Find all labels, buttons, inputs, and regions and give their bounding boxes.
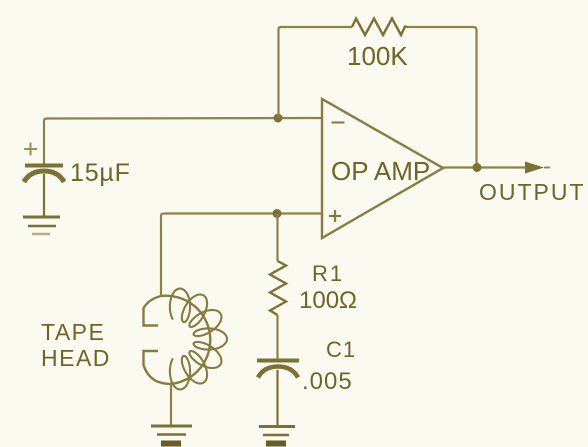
resistor 100K	[352, 19, 407, 36]
label C1	[326, 337, 356, 362]
ground (C1)	[259, 427, 295, 444]
label 15uF	[70, 159, 131, 187]
label .005	[302, 368, 353, 395]
label OP AMP	[331, 156, 430, 186]
capacitor 15uF plus marker	[24, 143, 37, 156]
wire: feedback top horizontal right of resistor	[407, 27, 477, 167]
junction: feedback to inverting input	[274, 114, 283, 123]
svg-text:100K: 100K	[347, 41, 408, 71]
svg-text:C1: C1	[326, 337, 356, 362]
label TAPE HEAD	[41, 319, 111, 371]
wire: non-inverting input line	[161, 214, 322, 297]
svg-text:R1: R1	[312, 261, 344, 286]
op-amp U1	[322, 99, 443, 238]
svg-text:OUTPUT: OUTPUT	[479, 179, 586, 205]
wire: 15uF cap to inverting input	[44, 118, 322, 165]
ground (15uF)	[23, 217, 60, 234]
svg-text:100Ω: 100Ω	[299, 287, 357, 314]
wire: feedback top horizontal left of resistor	[280, 26, 352, 28]
wire: non-inverting node to R1	[276, 214, 278, 262]
label 100K	[347, 41, 408, 71]
capacitor 15uF	[24, 166, 64, 217]
label R1	[312, 261, 344, 286]
inverting input marker -	[332, 121, 345, 123]
wire: R1 to C1	[276, 315, 278, 359]
svg-text:OP AMP: OP AMP	[331, 156, 430, 186]
tape head winding	[170, 289, 227, 390]
label 100ohm	[299, 287, 357, 314]
svg-text:15µF: 15µF	[70, 159, 131, 187]
tape head core	[144, 296, 211, 384]
wire: op-amp output	[443, 166, 527, 168]
svg-text:TAPE: TAPE	[41, 319, 105, 345]
wire: tape head to ground	[170, 384, 172, 425]
resistor R1	[270, 261, 286, 315]
label OUTPUT	[479, 179, 586, 205]
non-inverting input marker +	[329, 210, 341, 222]
capacitor C1	[257, 361, 299, 426]
svg-text:.005: .005	[302, 368, 353, 395]
svg-text:HEAD: HEAD	[41, 345, 111, 371]
arrow: output	[525, 162, 544, 174]
ground (tape head)	[151, 426, 192, 444]
wire: feedback loop left vertical	[279, 27, 282, 118]
junction: output node	[473, 163, 482, 172]
junction: R1 to non-inverting input	[273, 209, 282, 218]
